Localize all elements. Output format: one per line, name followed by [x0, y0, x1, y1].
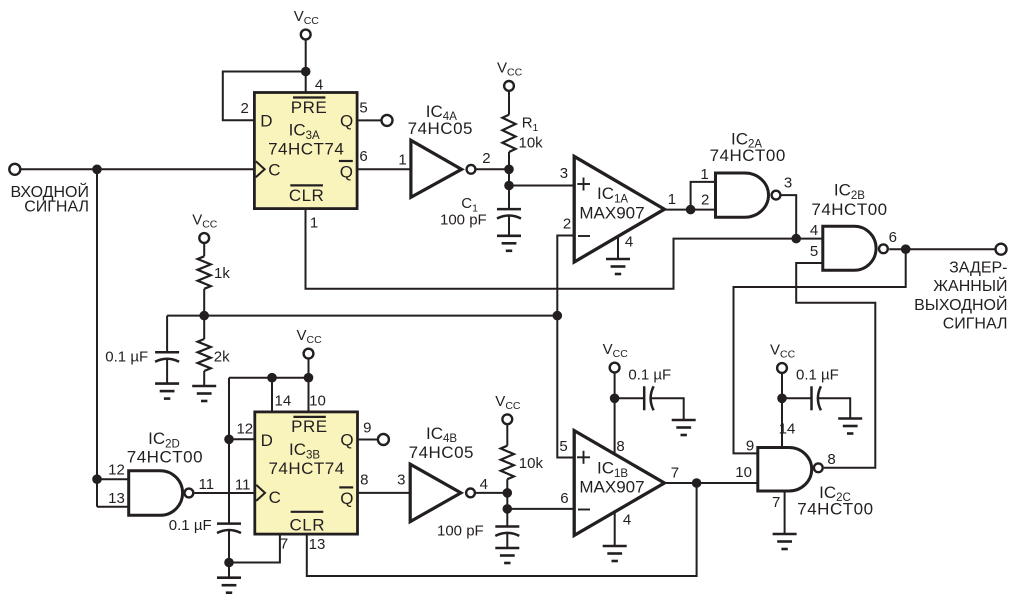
- svg-text:Q: Q: [340, 431, 353, 450]
- svg-text:Q: Q: [340, 111, 353, 130]
- svg-text:4: 4: [625, 234, 633, 251]
- svg-text:100 pF: 100 pF: [440, 212, 487, 229]
- svg-text:74HC05: 74HC05: [408, 119, 473, 138]
- svg-text:5: 5: [559, 438, 567, 455]
- svg-text:СИГНАЛ: СИГНАЛ: [24, 199, 89, 216]
- svg-text:6: 6: [359, 148, 367, 165]
- svg-text:D: D: [260, 112, 272, 131]
- svg-text:1: 1: [310, 215, 318, 232]
- svg-text:10k: 10k: [519, 455, 544, 472]
- svg-text:11: 11: [199, 476, 215, 493]
- svg-text:74HC05: 74HC05: [409, 443, 474, 462]
- svg-text:2k: 2k: [214, 349, 230, 366]
- svg-text:100 pF: 100 pF: [437, 523, 484, 540]
- svg-text:PRE: PRE: [291, 98, 327, 117]
- svg-text:ЗАДЕР-: ЗАДЕР-: [949, 260, 1007, 277]
- svg-text:2: 2: [563, 216, 571, 233]
- svg-text:74HCT74: 74HCT74: [268, 459, 344, 478]
- svg-text:4: 4: [623, 512, 631, 529]
- svg-text:9: 9: [363, 420, 371, 437]
- svg-text:12: 12: [108, 462, 125, 479]
- svg-text:4: 4: [480, 476, 488, 493]
- svg-text:74HCT00: 74HCT00: [811, 200, 887, 219]
- svg-text:ВЫХОДНОЙ: ВЫХОДНОЙ: [914, 295, 1007, 314]
- svg-text:74HCT00: 74HCT00: [710, 146, 786, 165]
- svg-text:5: 5: [810, 243, 818, 260]
- svg-text:Q: Q: [340, 163, 353, 182]
- svg-text:2: 2: [241, 100, 249, 117]
- svg-text:D: D: [261, 431, 273, 450]
- svg-text:CLR: CLR: [290, 515, 326, 534]
- svg-text:0.1 µF: 0.1 µF: [628, 367, 671, 384]
- svg-text:8: 8: [360, 472, 368, 489]
- svg-text:3: 3: [560, 165, 568, 182]
- svg-text:74HCT74: 74HCT74: [268, 140, 344, 159]
- svg-text:74HCT00: 74HCT00: [797, 500, 873, 519]
- svg-text:4: 4: [810, 222, 818, 239]
- svg-text:1: 1: [668, 191, 676, 208]
- svg-text:ЖАННЫЙ: ЖАННЫЙ: [933, 276, 1007, 295]
- svg-text:C: C: [269, 488, 281, 507]
- svg-text:6: 6: [560, 490, 568, 507]
- svg-text:1: 1: [700, 166, 708, 183]
- svg-text:2: 2: [482, 150, 490, 167]
- svg-text:5: 5: [359, 100, 367, 117]
- svg-text:11: 11: [235, 477, 251, 494]
- svg-text:0.1 µF: 0.1 µF: [105, 349, 148, 366]
- svg-text:7: 7: [280, 536, 288, 553]
- svg-text:9: 9: [746, 438, 754, 455]
- svg-text:3: 3: [397, 472, 405, 489]
- svg-text:0.1 µF: 0.1 µF: [169, 517, 212, 534]
- svg-text:MAX907: MAX907: [579, 478, 644, 497]
- svg-text:MAX907: MAX907: [579, 203, 644, 222]
- svg-text:10k: 10k: [519, 135, 544, 152]
- svg-text:14: 14: [275, 393, 292, 410]
- svg-text:PRE: PRE: [291, 417, 327, 436]
- svg-text:7: 7: [671, 465, 679, 482]
- svg-text:0.1 µF: 0.1 µF: [796, 367, 839, 384]
- svg-text:1: 1: [398, 152, 406, 169]
- svg-text:12: 12: [236, 421, 253, 438]
- svg-text:8: 8: [616, 438, 624, 455]
- svg-text:7: 7: [772, 494, 780, 511]
- svg-text:74HCT00: 74HCT00: [127, 447, 203, 466]
- svg-text:10: 10: [735, 464, 752, 481]
- svg-text:Q: Q: [340, 489, 353, 508]
- svg-text:4: 4: [315, 77, 323, 94]
- svg-text:6: 6: [889, 229, 897, 246]
- svg-text:8: 8: [827, 451, 835, 468]
- svg-text:2: 2: [701, 192, 709, 209]
- svg-text:1k: 1k: [214, 265, 230, 282]
- svg-text:3: 3: [784, 175, 792, 192]
- svg-text:13: 13: [309, 536, 326, 553]
- svg-text:10: 10: [309, 393, 326, 410]
- svg-text:13: 13: [108, 490, 125, 507]
- svg-text:CLR: CLR: [289, 186, 325, 205]
- svg-text:C: C: [268, 161, 280, 180]
- svg-text:СИГНАЛ: СИГНАЛ: [943, 316, 1008, 333]
- svg-text:14: 14: [779, 421, 796, 438]
